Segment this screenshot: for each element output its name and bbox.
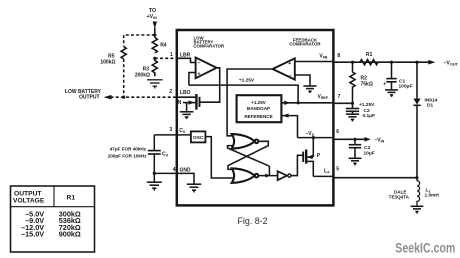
bandgap reference box (237, 95, 282, 122)
wire to pin 4 (154, 172, 176, 174)
svg-text:VFB: VFB (319, 54, 328, 60)
ground (external CX) (147, 173, 162, 190)
wire bandgap output to VREF pin 7 (281, 102, 332, 104)
node junction CX / GND (153, 172, 156, 175)
P label (317, 153, 321, 159)
svg-text:TE3Q4TA: TE3Q4TA (389, 195, 410, 200)
pin 3 number (169, 127, 172, 133)
wire pin 4 internal (177, 173, 194, 183)
wire + input feedback to 1.25V rail (189, 73, 196, 86)
node junction L1/D1 (415, 176, 418, 179)
N label (178, 100, 182, 106)
svg-text:+1.25V: +1.25V (239, 77, 255, 83)
svg-text:N: N (178, 100, 182, 106)
D1 label (425, 98, 438, 109)
ground (below R3) (147, 80, 163, 89)
IC U1 (MAX635-style block) outline (177, 30, 334, 205)
svg-text:–15.0V: –15.0V (21, 230, 44, 239)
oscillator box OSC (191, 131, 206, 142)
svg-text:+VIN: +VIN (147, 14, 158, 20)
wire FB comparator output to flip-flop (227, 69, 273, 136)
svg-text:LBO: LBO (180, 90, 191, 96)
node junction C3 (353, 138, 356, 141)
ground (internal GND pin) (187, 184, 201, 192)
node TO +VIN label (147, 8, 158, 20)
-Vs label (305, 131, 314, 137)
svg-text:0.1μF: 0.1μF (363, 113, 376, 119)
transistor Q2 P-channel output FET (312, 138, 314, 157)
capacitor CX external (153, 135, 155, 150)
table of output voltage vs R1 (11, 186, 95, 252)
node junction D1 top (415, 61, 418, 64)
transistor Q1 N-channel LBO FET (177, 96, 197, 98)
svg-text:VOLTAGE: VOLTAGE (13, 198, 45, 205)
svg-text:6: 6 (336, 129, 339, 135)
-VOUT label (444, 61, 459, 67)
ground (C3) (349, 148, 362, 166)
svg-text:Fig. 8-2: Fig. 8-2 (238, 216, 268, 226)
wire +VIN vertical (154, 28, 156, 38)
CX value note (108, 147, 148, 159)
ground (C2) (346, 111, 359, 121)
C2 label (363, 108, 376, 119)
svg-text:200pF FOR 10kHz: 200pF FOR 10kHz (108, 154, 148, 159)
wire upper NOR output cross-couple to lower input (228, 141, 268, 169)
svg-text:3: 3 (169, 127, 172, 133)
C3 label (364, 145, 375, 157)
R5 value label (100, 54, 115, 66)
C1 polarity + (383, 82, 386, 88)
svg-text:100kΩ: 100kΩ (100, 60, 115, 66)
flip-flop NOR gate upper (232, 134, 259, 148)
inductor L1 (417, 178, 420, 206)
pin 4 number (173, 167, 176, 173)
pin 5 label LX (324, 169, 330, 175)
pin 1 label LBR (180, 53, 191, 59)
flip-flop NOR gate lower (232, 168, 259, 182)
ground (FET source) (180, 112, 194, 119)
wire VFB pin 8 (295, 61, 333, 63)
svg-text:CX: CX (162, 152, 169, 158)
wire lower NOR output cross-couple to upper input (228, 146, 270, 167)
svg-text:+1.25V: +1.25V (359, 102, 375, 108)
svg-text:1.0mH: 1.0mH (425, 193, 440, 199)
R2 label (361, 76, 373, 88)
resistor R1 (360, 60, 378, 65)
svg-text:R1: R1 (366, 52, 373, 58)
svg-text:BANDGAP: BANDGAP (247, 106, 270, 111)
node junction VREF external (351, 102, 354, 105)
svg-text:GND: GND (180, 168, 192, 174)
wire pin 5 LX line (313, 175, 332, 177)
resistor R5 (121, 47, 126, 60)
svg-text:4: 4 (173, 167, 176, 173)
-VOUT arrow (428, 60, 435, 65)
node junction -Vs / P-FET (312, 136, 315, 139)
svg-text:–VOUT: –VOUT (444, 61, 459, 67)
VREF label (317, 94, 328, 100)
svg-text:+: + (383, 82, 386, 88)
ground (feedback comparator - input) (303, 86, 316, 93)
wire -Vs rail pin 6 (298, 137, 333, 139)
svg-text:OUTPUT: OUTPUT (14, 191, 42, 198)
wire dashed R5 to LBO node (123, 59, 125, 97)
node junction +VIN / R5 branch (153, 33, 156, 36)
svg-text:+: + (288, 61, 291, 67)
wire OSC to flip-flop lower gate (205, 137, 233, 178)
pin 1 number (170, 52, 173, 58)
svg-text:75kΩ: 75kΩ (361, 82, 373, 88)
caption Fig. 8-2 (238, 216, 268, 226)
wire pin 3 to OSC (154, 134, 191, 136)
svg-text:+1.25V: +1.25V (251, 100, 267, 105)
-VIN arrow (365, 137, 371, 142)
pin 5 number (336, 167, 339, 173)
wire pin 7 to R2/C2 node (333, 102, 353, 104)
wire dashed to pin 1 (155, 57, 177, 59)
capacitor C2 (352, 103, 354, 108)
R3 label (135, 67, 150, 79)
pin 2 number (169, 89, 172, 95)
wire lower NOR output to inverter (259, 175, 278, 177)
wire dashed LBO to pin 2 (111, 96, 177, 98)
wire pin 6 to -VIN (333, 138, 366, 140)
pin 8 number (337, 53, 340, 59)
diode D1 1N914 (416, 62, 418, 98)
ground (L1) (411, 206, 424, 213)
+1.25V rail label (239, 77, 255, 83)
svg-text:2: 2 (169, 89, 172, 95)
node junction R2 top (351, 61, 354, 64)
pin 4 label GND (180, 168, 192, 174)
wire P-FET gate from inverter (297, 155, 303, 176)
svg-text:D1: D1 (427, 103, 433, 109)
svg-text:–: – (289, 74, 292, 80)
svg-text:8: 8 (337, 53, 340, 59)
node junction VREF / rail (297, 101, 300, 104)
wire - input to internal ground (295, 75, 310, 85)
wire bandgap feedback input from -Vs rail (281, 116, 297, 138)
-VIN label (375, 138, 385, 144)
node junction NOR output (265, 174, 268, 177)
wire dashed branch to R5 (124, 35, 155, 47)
comparator triangle (points left) (273, 58, 295, 79)
svg-text:5: 5 (336, 167, 339, 173)
node junction C1 top (390, 61, 393, 64)
R4 label (160, 43, 167, 49)
svg-text:COMPARATOR: COMPARATOR (289, 42, 321, 47)
svg-text:–VIN: –VIN (375, 138, 385, 144)
capacitor C1 (391, 62, 393, 78)
svg-text:+: + (197, 71, 200, 77)
svg-text:–: – (198, 61, 201, 67)
resistor R3 (152, 58, 157, 76)
svg-text:P: P (317, 153, 321, 159)
svg-text:R4: R4 (160, 43, 167, 49)
resistor R2 (350, 62, 355, 103)
op-amp U1a LOW BATTERY COMPARATOR (194, 36, 225, 49)
L1 part label (389, 190, 410, 200)
capacitor C3 (354, 139, 356, 144)
svg-text:SeekIC.com: SeekIC.com (395, 241, 455, 256)
svg-text:VREF: VREF (317, 94, 328, 100)
watermark SeekIC.com (395, 241, 455, 256)
svg-text:1: 1 (170, 52, 173, 58)
+1.25V node label (359, 102, 375, 108)
VFB label (319, 54, 328, 60)
svg-text:COMPARATOR: COMPARATOR (194, 43, 225, 48)
svg-text:100μF: 100μF (399, 84, 413, 90)
inverter buffer U1c (278, 171, 287, 180)
C1 label (399, 79, 413, 90)
svg-text:R1: R1 (67, 195, 76, 202)
node LOW BATTERY OUTPUT label (65, 89, 102, 100)
+VIN entry arrow (153, 22, 157, 29)
resistor R4 (152, 37, 157, 53)
pin 6 number (336, 129, 339, 135)
svg-text:10μF: 10μF (364, 151, 375, 157)
wire inverter output to gate corner (291, 175, 297, 177)
pin 3 label CX (179, 128, 186, 134)
wire pin1 to comparator - input (177, 58, 196, 62)
LOW BATTERY OUTPUT arrow (104, 95, 112, 100)
CX label (162, 152, 169, 158)
wire LB comparator output to FET gate (200, 68, 220, 102)
svg-text:OSC: OSC (193, 135, 204, 141)
svg-text:47pF FOR 40kHz: 47pF FOR 40kHz (110, 147, 147, 152)
node junction R5/LBO (122, 96, 125, 99)
op-amp U1b FEEDBACK COMPARATOR (289, 37, 321, 46)
svg-text:7: 7 (338, 94, 341, 100)
wire pin 5 to L1 (333, 177, 418, 179)
svg-text:REFERENCE: REFERENCE (244, 114, 272, 119)
svg-text:OUTPUT: OUTPUT (79, 94, 100, 100)
svg-text:C3: C3 (364, 145, 370, 151)
L1 value label (425, 188, 440, 199)
svg-text:900kΩ: 900kΩ (59, 230, 81, 239)
ground (C1) (385, 82, 398, 97)
pin 2 label LBO (180, 90, 191, 96)
wire +1.25V rail (189, 85, 298, 103)
comparator triangle (196, 58, 217, 79)
pin 7 number (338, 94, 341, 100)
R1 label (366, 52, 373, 58)
svg-text:CX: CX (179, 128, 186, 134)
svg-text:200kΩ: 200kΩ (135, 73, 150, 79)
node junction R4/R3/pin1 (153, 57, 156, 60)
wire pin 8 output line (333, 61, 433, 63)
svg-text:LX: LX (324, 169, 330, 175)
